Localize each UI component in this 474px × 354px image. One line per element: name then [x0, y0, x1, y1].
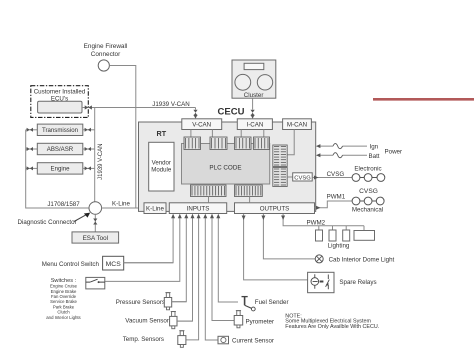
Ign power wire with fuse — [316, 144, 367, 149]
diagnostic connector label and arrow — [18, 213, 91, 226]
MCS box — [103, 256, 124, 270]
PLC CODE box — [182, 144, 270, 185]
lighting box wide — [354, 231, 375, 241]
connector block top 1 — [184, 137, 201, 150]
vendor module box — [149, 142, 174, 191]
svg-text:J1939 V-CAN: J1939 V-CAN — [98, 144, 104, 180]
svg-text:CVSG: CVSG — [294, 175, 311, 181]
current sensor label — [232, 338, 274, 345]
spare relays box — [308, 272, 334, 292]
svg-text:Batt: Batt — [369, 153, 380, 160]
wire junction to ESA tool — [94, 214, 96, 232]
J1939 V-CAN horizontal label — [152, 101, 190, 108]
svg-text:V-CAN: V-CAN — [192, 122, 211, 129]
connector on dashed boundary — [85, 105, 92, 109]
customer installed ECUs dashed box — [31, 86, 89, 118]
lighting box 3 — [343, 230, 350, 241]
electronic gauge circles — [352, 174, 385, 182]
wire output lighting PWM2 — [281, 214, 364, 226]
svg-text:Menu Control Switch: Menu Control Switch — [42, 261, 100, 268]
connector block top 4 — [254, 137, 270, 150]
svg-text:Cluster: Cluster — [244, 92, 264, 99]
connector right of Engine — [85, 166, 91, 170]
J1939 V-CAN vertical label — [98, 144, 104, 180]
svg-text:and Interior Lights: and Interior Lights — [46, 315, 80, 320]
customer installed ECUs label — [34, 89, 86, 103]
Batt label — [369, 153, 380, 160]
wire J1939 drop to V-CAN — [195, 108, 197, 110]
wire input fuel sender — [216, 214, 238, 302]
PWM1 wire — [315, 201, 353, 210]
fuel sender label — [255, 299, 289, 306]
vacuum sensor — [170, 312, 177, 329]
pyrometer label — [246, 318, 275, 325]
connector X on V-CAN drop — [193, 110, 197, 116]
connector block bottom 2 — [235, 185, 263, 197]
svg-text:OUTPUTS: OUTPUTS — [260, 206, 290, 213]
wire right stub Transmission — [83, 129, 95, 131]
wire from engine firewall connector to K-Line — [109, 66, 135, 208]
engine firewall connector label — [84, 43, 128, 58]
wire right stub ABS-ASR — [83, 148, 95, 150]
svg-text:PWM1: PWM1 — [327, 194, 346, 201]
wire left stub ABS-ASR — [26, 148, 38, 150]
pressure sensor — [164, 293, 171, 310]
svg-text:Power: Power — [385, 148, 403, 155]
svg-text:Vendor: Vendor — [152, 160, 171, 167]
ESA Tool box — [72, 232, 119, 243]
vacuum sensors label — [125, 317, 172, 324]
wire right stub Engine — [83, 167, 95, 169]
svg-text:Module: Module — [151, 167, 172, 174]
pressure sensors label — [116, 299, 165, 306]
K-Line port box — [144, 203, 166, 214]
svg-text:ABS/ASR: ABS/ASR — [47, 146, 74, 153]
switches list — [46, 284, 80, 320]
M-CAN port box — [283, 119, 312, 130]
Transmission box — [37, 124, 83, 135]
wire I-CAN to connector 3 — [240, 130, 242, 138]
svg-text:Connector: Connector — [91, 51, 121, 58]
K-Line wire label — [112, 200, 130, 207]
connector left of Transmission — [27, 128, 33, 132]
pyrometer — [234, 311, 243, 328]
red divider line — [373, 98, 474, 101]
connector left of ABS-ASR — [27, 147, 33, 151]
wire cluster to I-CAN — [252, 98, 254, 109]
J1708/1587 bus wire — [26, 130, 89, 208]
diagnostic connector junction circle — [89, 202, 102, 215]
Engine box — [37, 163, 83, 174]
lighting box 1 — [316, 230, 323, 241]
wire input switches — [105, 214, 182, 282]
Electronic label — [354, 166, 381, 173]
PWM1 label — [327, 194, 346, 201]
svg-text:PLC CODE: PLC CODE — [209, 165, 241, 172]
svg-text:CVSG: CVSG — [359, 188, 378, 195]
CVSG wire label — [327, 171, 345, 178]
K-Line wire to CECU — [102, 207, 144, 209]
svg-text:Temp. Sensors: Temp. Sensors — [123, 336, 164, 343]
connector block top 2 — [210, 137, 227, 150]
svg-text:Engine: Engine — [51, 166, 71, 173]
svg-text:Diagnostic Connector: Diagnostic Connector — [18, 219, 77, 226]
wire input pressure sensors — [172, 214, 188, 302]
wire V-CAN to connector 2 — [211, 130, 213, 138]
cluster label — [244, 92, 264, 99]
svg-text:CECU: CECU — [218, 107, 245, 118]
svg-text:CVSG: CVSG — [327, 171, 345, 178]
temp sensors label — [123, 336, 164, 343]
engine firewall connector circle — [98, 60, 109, 71]
mechanical gauge circles — [352, 197, 384, 205]
wire I-CAN to connector 4 — [263, 130, 265, 138]
wire input current sensor — [203, 214, 218, 340]
Mechanical label — [352, 206, 383, 213]
fuel sender symbol — [242, 297, 256, 311]
svg-text:Fuel Sender: Fuel Sender — [255, 299, 289, 306]
wire V-CAN to connector 1 — [190, 130, 192, 138]
wire ECU to V-CAN (J1939 V-CAN) — [82, 107, 196, 109]
svg-text:M-CAN: M-CAN — [287, 122, 307, 129]
current sensor — [218, 336, 229, 344]
wire left stub Transmission — [26, 129, 38, 131]
spare relays label — [339, 279, 376, 286]
svg-text:Features Are Only Availble Wit: Features Are Only Availble With CECU. — [285, 324, 379, 330]
svg-text:Ign: Ign — [370, 144, 379, 151]
svg-text:ESA Tool: ESA Tool — [83, 235, 108, 242]
CVSG output wire — [312, 176, 352, 180]
svg-text:Vacuum Sensors: Vacuum Sensors — [125, 317, 172, 324]
Batt power wire with fuse — [316, 153, 367, 158]
svg-text:MCS: MCS — [106, 261, 122, 268]
svg-text:RT: RT — [157, 129, 167, 138]
CECU label — [218, 107, 245, 118]
svg-text:Electronic: Electronic — [354, 166, 381, 173]
connector block bottom 1 — [191, 185, 227, 197]
ECU box — [38, 101, 82, 113]
arrow into V-CAN — [194, 115, 198, 119]
svg-text:K-Line: K-Line — [112, 200, 130, 207]
Lighting label — [328, 243, 350, 250]
svg-text:K-Line: K-Line — [146, 206, 164, 213]
PWM2 label — [307, 219, 326, 226]
svg-text:Transmission: Transmission — [42, 127, 78, 134]
wire input MCS — [124, 214, 175, 263]
connector block right upper — [273, 145, 287, 167]
connector right of Transmission — [85, 128, 91, 132]
svg-text:I-CAN: I-CAN — [246, 122, 263, 129]
lighting tap wires — [319, 226, 364, 231]
svg-text:Mechanical: Mechanical — [352, 206, 383, 213]
switch symbol box — [86, 277, 105, 289]
cluster gauge left — [235, 74, 251, 90]
svg-text:J1708/1587: J1708/1587 — [47, 201, 80, 208]
Power label — [385, 148, 403, 155]
cab interior dome light symbol — [315, 255, 323, 263]
OUTPUTS port box — [235, 203, 315, 214]
V-CAN port box — [182, 119, 222, 130]
wire MCS to inputs — [124, 262, 173, 264]
connector right of ABS-ASR — [85, 147, 91, 151]
svg-text:Current Sensor: Current Sensor — [232, 338, 274, 345]
cluster display rect — [244, 63, 264, 69]
wire vacuum sensor — [177, 320, 192, 322]
svg-text:Cab Interior Dome Light: Cab Interior Dome Light — [329, 257, 395, 264]
I-CAN port box — [237, 119, 272, 130]
connector left of Engine — [27, 166, 33, 170]
connector block top 3 — [235, 137, 252, 150]
note text — [285, 314, 379, 330]
cab interior dome light label — [329, 257, 395, 264]
CVSG group label — [359, 188, 378, 195]
wire bottom connector 1 to INPUTS — [208, 197, 210, 203]
svg-text:J1939 V-CAN: J1939 V-CAN — [152, 101, 190, 108]
wire input temp sensors — [186, 214, 201, 340]
temp sensor — [178, 331, 186, 348]
svg-text:Pyrometer: Pyrometer — [246, 318, 275, 325]
connector X on cluster wire — [251, 110, 255, 116]
wire input vacuum sensors — [177, 214, 194, 321]
svg-text:Spare Relays: Spare Relays — [339, 279, 376, 286]
J1939 V-CAN vertical bus wire — [94, 108, 96, 202]
wire left stub Engine — [26, 167, 38, 169]
ABS-ASR box — [37, 143, 83, 154]
wire output dome light — [261, 214, 315, 259]
connector X on ESA wire — [93, 219, 97, 225]
lighting box 2 — [329, 230, 336, 241]
spare relay symbol — [311, 274, 329, 289]
svg-text:INPUTS: INPUTS — [187, 206, 210, 213]
connector block right lower — [273, 168, 287, 187]
wire bottom connector 2 to OUTPUTS — [249, 197, 251, 203]
RT label — [157, 129, 167, 138]
wire M-CAN to right connector — [287, 130, 294, 155]
svg-text:Engine Firewall: Engine Firewall — [84, 43, 128, 50]
svg-text:Lighting: Lighting — [328, 243, 350, 250]
INPUTS port box — [169, 203, 226, 214]
Ign label — [370, 144, 379, 151]
wire input pyrometer — [210, 214, 234, 321]
wire pressure sensor — [172, 301, 186, 303]
CECU box — [139, 122, 316, 211]
cluster box — [232, 60, 276, 98]
menu control switch label — [42, 261, 100, 268]
wire output spare relays — [242, 214, 308, 280]
switches label — [51, 278, 77, 284]
cluster gauge right — [257, 75, 272, 90]
CVSG internal box — [287, 173, 312, 182]
svg-text:PWM2: PWM2 — [307, 219, 326, 226]
arrow into I-CAN — [251, 115, 255, 119]
J1708/1587 label — [47, 201, 80, 208]
svg-text:Pressure Sensors: Pressure Sensors — [116, 299, 165, 306]
